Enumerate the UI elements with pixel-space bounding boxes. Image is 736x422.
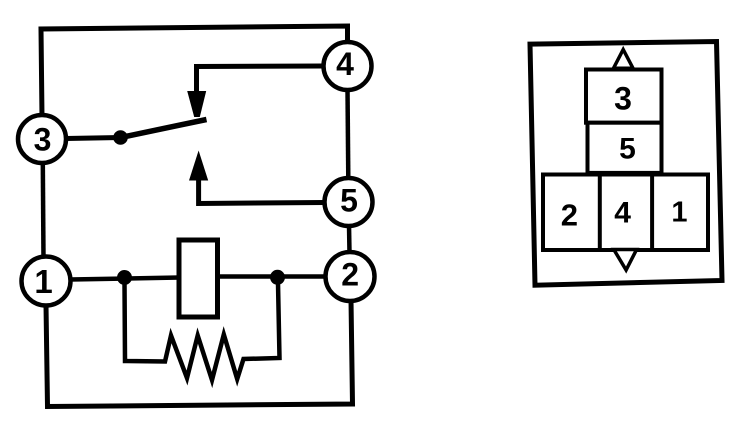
svg-text:1: 1 (34, 263, 52, 300)
svg-text:5: 5 (619, 133, 636, 166)
svg-text:3: 3 (614, 80, 632, 116)
svg-text:5: 5 (340, 183, 358, 219)
svg-text:3: 3 (34, 121, 52, 157)
svg-text:2: 2 (341, 257, 359, 293)
svg-text:4: 4 (336, 46, 354, 82)
svg-text:1: 1 (671, 197, 687, 229)
svg-text:2: 2 (561, 198, 578, 233)
svg-text:4: 4 (614, 197, 631, 230)
